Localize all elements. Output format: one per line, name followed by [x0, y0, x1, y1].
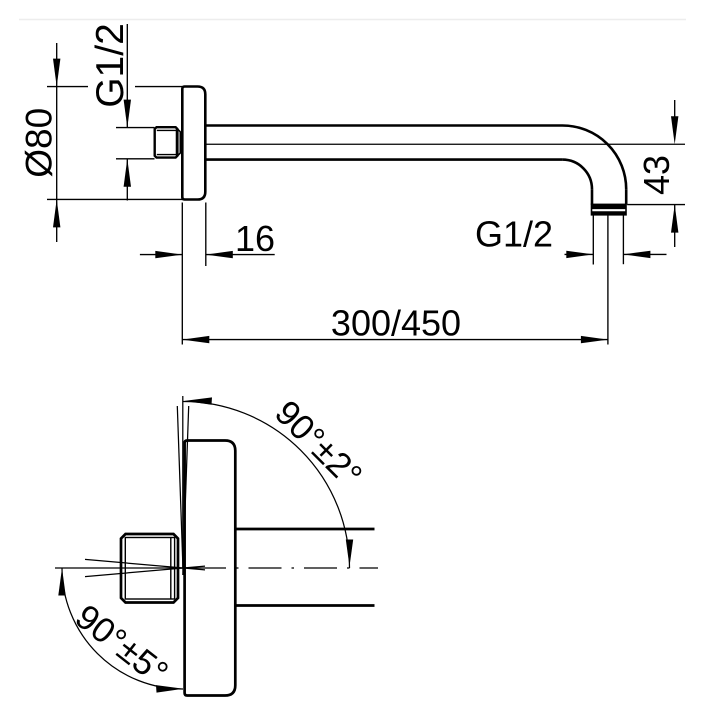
- bend outer radius: [563, 126, 627, 190]
- arrow Ø80 top: [53, 59, 60, 87]
- thread end face: [179, 132, 181, 154]
- svg-text:G1/2: G1/2: [475, 214, 553, 255]
- axis centerline dash-dot: [55, 567, 226, 569]
- arrow 300/450 right: [581, 336, 608, 343]
- dimension 43: [627, 100, 685, 247]
- arrow G1/2 outlet left: [566, 251, 593, 258]
- dimension line G1/2 (vertical): [126, 24, 128, 201]
- svg-text:43: 43: [636, 155, 677, 195]
- svg-text:16: 16: [235, 218, 275, 259]
- arrow 300/450 left: [182, 336, 209, 343]
- vertical reference line: [182, 396, 184, 568]
- tolerance fan +5deg: [85, 559, 205, 570]
- arrow G1/2 outlet right: [623, 251, 650, 258]
- outlet collar nut: [592, 204, 627, 214]
- thread root lines: [157, 129, 177, 155]
- arrow G1/2 top: [124, 100, 131, 128]
- thread spigot G1/2 (side view): [155, 127, 178, 157]
- arm tube bottom line (detail): [235, 604, 374, 607]
- bend inner radius: [562, 160, 592, 190]
- tolerance fan -5deg: [85, 566, 205, 577]
- dimension 16: [140, 203, 275, 345]
- faint card edge line: [19, 19, 686, 21]
- thread chamfer top: [176, 127, 181, 132]
- arm tube top line (detail): [235, 528, 374, 531]
- arrow arc5 left: [58, 568, 65, 596]
- arrow 16 right: [206, 251, 233, 258]
- dimension 300/450: [182, 339, 608, 341]
- svg-text:Ø80: Ø80: [19, 108, 60, 178]
- thread plug face line: [170, 538, 172, 600]
- thread plug inner outline: [125, 538, 174, 600]
- dimension G1/2 outlet: [565, 216, 667, 345]
- wall flange (detail view): [185, 441, 236, 696]
- arm tube top line: [205, 124, 562, 127]
- arm centerline (43 reference): [205, 143, 685, 145]
- arrow 43 top: [671, 116, 678, 144]
- tolerance fan -2deg: [183, 406, 189, 575]
- arm tube bottom line: [205, 158, 562, 161]
- svg-text:300/450: 300/450: [331, 302, 461, 343]
- arrow 43 bottom: [671, 205, 678, 233]
- thread chamfer bottom: [176, 153, 181, 158]
- angle arc 90+-5: [62, 568, 183, 689]
- tolerance fan +2deg: [177, 406, 183, 575]
- label G1/2 background mask: [88, 21, 135, 111]
- arrow arc2 right: [346, 540, 353, 567]
- arrow arc2 top: [185, 397, 213, 404]
- arrow 16 left: [155, 251, 182, 258]
- arrow Ø80 bottom: [53, 199, 60, 227]
- dimension line Ø80: [47, 43, 182, 242]
- dimension G1/2 wall thread (vertical): [116, 128, 155, 159]
- arrow arc5 bottom: [156, 685, 184, 693]
- svg-text:G1/2: G1/2: [89, 23, 132, 108]
- outlet pipe edges: [591, 189, 594, 204]
- angle arc 90+-2: [183, 402, 350, 569]
- wall flange (side view): [182, 87, 205, 200]
- thread plug (detail view): [121, 534, 178, 603]
- arrow G1/2 bottom: [124, 159, 131, 187]
